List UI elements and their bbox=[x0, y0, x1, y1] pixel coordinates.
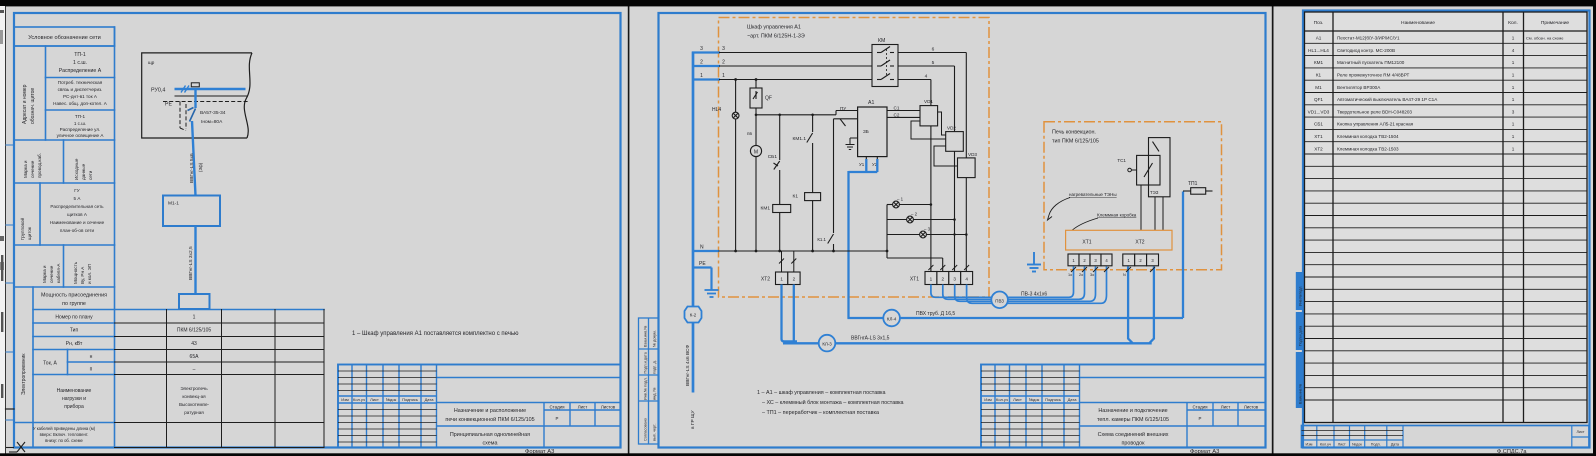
svg-text:схема: схема bbox=[482, 441, 497, 447]
svg-text:1: 1 bbox=[930, 277, 933, 282]
svg-text:Кол.уч: Кол.уч bbox=[1320, 442, 1331, 446]
svg-text:QF: QF bbox=[765, 96, 772, 102]
svg-text:ПКМ 6/125/105: ПКМ 6/125/105 bbox=[177, 328, 212, 334]
svg-text:№ докум.: № докум. bbox=[653, 330, 657, 347]
svg-text:КМ1: КМ1 bbox=[761, 206, 771, 212]
svg-text:1: 1 bbox=[1512, 60, 1515, 65]
svg-text:– 3: – 3 bbox=[924, 227, 931, 232]
svg-text:Назначение и расположение: Назначение и расположение bbox=[454, 408, 526, 414]
svg-text:ПВЗ: ПВЗ bbox=[995, 298, 1004, 303]
svg-text:Инв.№ подл.: Инв.№ подл. bbox=[644, 377, 648, 400]
svg-text:Изм: Изм bbox=[984, 397, 992, 402]
svg-text:У кабелей приведены длина (м): У кабелей приведены длина (м) bbox=[33, 426, 96, 431]
svg-text:М1: М1 bbox=[1315, 85, 1322, 90]
sheet3 bottom stamp bbox=[1302, 426, 1590, 448]
thermostat ТС1 pin bbox=[1128, 168, 1137, 172]
svg-text:PE: PE bbox=[699, 261, 706, 267]
sheet2 title block bbox=[981, 365, 1266, 448]
svg-text:Поз.: Поз. bbox=[1314, 20, 1324, 26]
thermocouple ТП1 bbox=[1183, 188, 1213, 195]
svg-text:Лист: Лист bbox=[578, 405, 588, 410]
svg-text:кабеля-А: кабеля-А bbox=[56, 263, 61, 283]
breaker QF bbox=[750, 80, 762, 146]
svg-text:ТП-1: ТП-1 bbox=[75, 114, 86, 119]
sheet2 drawing frame bbox=[659, 13, 1266, 448]
svg-text:А1: А1 bbox=[868, 100, 874, 106]
svg-text:ХТ2: ХТ2 bbox=[1314, 146, 1323, 151]
sheet edge line 1-2 bbox=[628, 6, 630, 454]
svg-text:сечение: сечение bbox=[49, 265, 54, 283]
terminal strip XT2 cabinet bbox=[776, 272, 801, 285]
svg-text:ХТ2: ХТ2 bbox=[1135, 240, 1144, 246]
KM output lines 6 5 4 bbox=[898, 53, 966, 158]
sheet2 title header labels bbox=[984, 397, 1077, 402]
blue cable XT2 to oven bbox=[782, 267, 1154, 344]
sheet1 left table row texts bbox=[59, 52, 102, 74]
svg-text:ТС1: ТС1 bbox=[1117, 158, 1126, 163]
sheet1 plan fragment wall bbox=[142, 53, 252, 138]
svg-text:Р: Р bbox=[556, 416, 559, 421]
svg-text:уличное освещение А: уличное освещение А bbox=[57, 133, 105, 138]
lamp HL4 branch bbox=[732, 80, 739, 252]
cable marker КЛ-4 bbox=[883, 310, 900, 327]
ground PE symbol blue bbox=[705, 290, 719, 297]
svg-text:3: 3 bbox=[1512, 109, 1515, 114]
svg-text:ХТ1: ХТ1 bbox=[910, 277, 919, 283]
svg-text:КМ: КМ bbox=[878, 38, 885, 44]
svg-text:ВВГнг-LS 3х2,5: ВВГнг-LS 3х2,5 bbox=[188, 246, 194, 280]
svg-text:Р: Р bbox=[1199, 416, 1202, 421]
svg-text:Листов: Листов bbox=[1244, 405, 1259, 410]
svg-text:HL1...HL4: HL1...HL4 bbox=[1308, 48, 1329, 53]
orange oven box bbox=[1044, 122, 1222, 270]
svg-text:У1: У1 bbox=[859, 162, 865, 167]
svg-text:Инв.№подл.: Инв.№подл. bbox=[1299, 286, 1303, 306]
sheet2 notes bbox=[757, 390, 904, 416]
svg-text:конвекц-ая: конвекц-ая bbox=[182, 394, 206, 399]
contactor KM bbox=[872, 45, 898, 87]
svg-text:Дата: Дата bbox=[1391, 442, 1400, 446]
svg-text:Кол.уч: Кол.уч bbox=[353, 397, 365, 402]
svg-text:РУ0,4: РУ0,4 bbox=[151, 88, 165, 94]
svg-text:Вентилятор ВР300А: Вентилятор ВР300А bbox=[1337, 85, 1381, 90]
sheet1 margin black tick bbox=[6, 408, 15, 410]
svg-text:Клеммная коробка: Клеммная коробка bbox=[1097, 213, 1137, 218]
svg-text:вверх: Включ. тепловент.: вверх: Включ. тепловент. bbox=[40, 432, 89, 437]
svg-text:М1-1: М1-1 bbox=[168, 201, 179, 207]
svg-text:2о: 2о bbox=[1079, 273, 1083, 277]
svg-text:КМ1.1: КМ1.1 bbox=[793, 136, 807, 142]
svg-text:КМ1: КМ1 bbox=[1314, 60, 1324, 65]
svg-text:VD2: VD2 bbox=[947, 126, 956, 131]
svg-text:КЛ-4: КЛ-4 bbox=[887, 317, 897, 322]
svg-text:N: N bbox=[1123, 273, 1126, 277]
coil К1 bbox=[805, 193, 821, 251]
svg-text:Мощность: Мощность bbox=[73, 261, 78, 284]
svg-text:Автоматический выключатель ВА4: Автоматический выключатель ВА47-29 1Р С1… bbox=[1337, 96, 1438, 102]
svg-text:Клеммная колодка ТВ2-1504: Клеммная колодка ТВ2-1504 bbox=[1337, 134, 1399, 139]
svg-text:С1: С1 bbox=[894, 106, 900, 111]
svg-text:4: 4 bbox=[965, 277, 968, 282]
svg-text:ТП1: ТП1 bbox=[1188, 181, 1198, 187]
svg-text:Дата: Дата bbox=[425, 397, 435, 402]
svg-text:Назначение и подключение: Назначение и подключение bbox=[1098, 408, 1167, 414]
svg-text:Реле промежуточное RM 4/48ВРТ: Реле промежуточное RM 4/48ВРТ bbox=[1337, 73, 1410, 78]
oven terminal hooks bbox=[1071, 267, 1155, 272]
svg-text:ВВГнг-LS 5х6: ВВГнг-LS 5х6 bbox=[189, 153, 195, 183]
svg-text:Групповой: Групповой bbox=[19, 217, 25, 240]
svg-text:Электроприемник: Электроприемник bbox=[21, 353, 27, 395]
svg-text:вып. черт.: вып. черт. bbox=[653, 424, 657, 441]
svg-text:Стадия: Стадия bbox=[1193, 405, 1209, 410]
svg-text:проводок: проводок bbox=[1121, 441, 1145, 447]
left app strip bbox=[0, 0, 5, 456]
top black band bbox=[0, 0, 1596, 6]
svg-text:Принципиальная однолинейная: Принципиальная однолинейная bbox=[450, 431, 530, 438]
svg-text:н: н bbox=[90, 354, 93, 360]
svg-text:Навес. общ. доп-котел. А: Навес. общ. доп-котел. А bbox=[53, 101, 108, 106]
svg-text:щр: щр bbox=[148, 60, 155, 65]
svg-text:сечение: сечение bbox=[30, 160, 35, 178]
svg-text:КЛ-3: КЛ-3 bbox=[822, 342, 832, 347]
control wire to A1 ПУ bbox=[756, 111, 858, 115]
A1 thermocouple pins У1 У2 bbox=[866, 157, 877, 160]
svg-text:Высокотемпе-: Высокотемпе- bbox=[179, 402, 210, 407]
svg-text:Лист: Лист bbox=[1013, 397, 1022, 402]
svg-text:PE: PE bbox=[165, 102, 172, 108]
A1 outputs С1 С2 bbox=[887, 111, 920, 118]
svg-text:Наименование: Наименование bbox=[1401, 20, 1435, 26]
svg-text:Ток, А: Ток, А bbox=[43, 361, 57, 367]
svg-text:Изм: Изм bbox=[1306, 442, 1313, 446]
svg-text:ЗБ: ЗБ bbox=[863, 129, 869, 134]
svg-text:1 – А1 – шкаф управления – ком: 1 – А1 – шкаф управления – комплектная п… bbox=[757, 390, 886, 396]
svg-text:Лист: Лист bbox=[1338, 442, 1346, 446]
svg-text:1: 1 bbox=[1512, 73, 1515, 78]
svg-text:1: 1 bbox=[1512, 146, 1515, 151]
svg-text:нагревательные ТЭНы: нагревательные ТЭНы bbox=[1069, 192, 1117, 197]
sheet1 power header bbox=[41, 293, 107, 308]
spec table area bbox=[1305, 12, 1588, 423]
svg-text:N: N bbox=[700, 245, 704, 251]
button СБ1 branch bbox=[774, 115, 780, 205]
sheet2 title block thin rows bbox=[981, 371, 1080, 442]
neutral bus N bbox=[719, 250, 888, 252]
svg-text:ратурная: ратурная bbox=[184, 410, 204, 415]
box ЩУ1 bbox=[163, 196, 220, 227]
svg-text:Марка и: Марка и bbox=[42, 265, 47, 283]
svg-text:Ф.СПДС.7а: Ф.СПДС.7а bbox=[1497, 449, 1527, 455]
breaker QF symbol bbox=[188, 108, 196, 122]
svg-text:QF1: QF1 bbox=[1314, 97, 1323, 102]
hooks above cabinet XT1 bbox=[928, 265, 969, 270]
svg-text:Распределительная сеть: Распределительная сеть bbox=[50, 204, 104, 209]
svg-text:щиток: щиток bbox=[27, 226, 32, 240]
svg-text:данные: данные bbox=[81, 163, 86, 180]
svg-text:1: 1 bbox=[722, 73, 725, 79]
svg-text:1 – Шкаф управления А1 поставл: 1 – Шкаф управления А1 поставляется комп… bbox=[352, 331, 519, 337]
svg-text:связь и диспетчериз.: связь и диспетчериз. bbox=[58, 87, 103, 92]
junction dots on L1 bbox=[734, 78, 757, 81]
svg-text:Формат А3: Формат А3 bbox=[1190, 449, 1219, 455]
oven terminal box orange bbox=[1066, 230, 1172, 250]
svg-text:Мощность присоединения: Мощность присоединения bbox=[41, 293, 107, 299]
node РУ0,4 busbar bbox=[175, 88, 246, 91]
sheet1 left table header text bbox=[28, 35, 101, 41]
svg-text:Формат А3: Формат А3 bbox=[525, 449, 554, 455]
svg-text:Наименование и сечение: Наименование и сечение bbox=[50, 220, 105, 225]
cable marker КЛ-3 bbox=[819, 335, 836, 352]
cable marker K-2 bbox=[685, 307, 702, 323]
svg-text:ПУ: ПУ bbox=[840, 106, 846, 111]
svg-text:Распределение А: Распределение А bbox=[59, 68, 102, 74]
svg-text:3: 3 bbox=[722, 46, 725, 52]
svg-text:1: 1 bbox=[1512, 134, 1515, 139]
svg-text:1о: 1о bbox=[1068, 273, 1072, 277]
svg-text:сети: сети bbox=[88, 170, 93, 180]
svg-text:Шкаф управления А1: Шкаф управления А1 bbox=[747, 25, 801, 31]
svg-text:3: 3 bbox=[700, 46, 703, 52]
spec table row lines bbox=[1305, 43, 1588, 400]
svg-text:Клеммная колодка ТВ2-1503: Клеммная колодка ТВ2-1503 bbox=[1337, 146, 1399, 151]
svg-text:Печь конвекцион.: Печь конвекцион. bbox=[1052, 130, 1096, 136]
svg-text:– 1: – 1 bbox=[897, 197, 904, 202]
svg-text:2: 2 bbox=[700, 60, 703, 66]
thermocouple blue cable from A1 bbox=[847, 159, 1183, 318]
svg-text:Подпись: Подпись bbox=[402, 397, 418, 402]
heater wires to box bbox=[1141, 185, 1163, 230]
svg-text:пв: пв bbox=[747, 131, 752, 136]
svg-text:–: – bbox=[193, 367, 196, 373]
svg-text:ПВХ труб. Д 16,5: ПВХ труб. Д 16,5 bbox=[916, 311, 955, 317]
sheet edge line 2-3 bbox=[1272, 6, 1274, 454]
A1 ground bbox=[846, 138, 858, 150]
fan motor M1 bbox=[750, 145, 761, 251]
spec table rows text bbox=[1308, 36, 1565, 152]
white strip vertical marks bbox=[1, 255, 3, 398]
svg-text:в ГР ЩУ: в ГР ЩУ bbox=[690, 409, 696, 429]
wire cable down from РУ bbox=[192, 89, 196, 196]
svg-text:инд. №: инд. № bbox=[653, 387, 657, 400]
svg-text:5 А: 5 А bbox=[74, 196, 82, 201]
svg-text:2: 2 bbox=[722, 60, 725, 66]
svg-text:См. обозн. на схеме: См. обозн. на схеме bbox=[1526, 36, 1564, 41]
svg-text:6: 6 bbox=[932, 47, 935, 53]
svg-text:ХТ1: ХТ1 bbox=[1314, 134, 1323, 139]
sheet1 left margin ticks bbox=[6, 145, 14, 420]
svg-text:Адресат и номер: Адресат и номер bbox=[22, 84, 28, 124]
svg-text:щитков А: щитков А bbox=[67, 212, 88, 217]
svg-text:п: п bbox=[90, 367, 93, 373]
svg-text:ТП-1: ТП-1 bbox=[74, 52, 86, 58]
svg-text:4: 4 bbox=[1512, 48, 1515, 53]
svg-text:VD3: VD3 bbox=[968, 152, 977, 157]
svg-text:Магнитный пускатель ПМ12100: Магнитный пускатель ПМ12100 bbox=[1337, 59, 1405, 65]
spec table header bbox=[1314, 20, 1570, 26]
svg-text:Ву, Рн А: Ву, Рн А bbox=[80, 266, 85, 284]
svg-text:Потреб. техническая: Потреб. техническая bbox=[58, 80, 103, 85]
svg-text:обознач. щитов: обознач. щитов bbox=[30, 88, 36, 124]
svg-text:Светодиод контр. МС-200В: Светодиод контр. МС-200В bbox=[1337, 48, 1395, 53]
svg-text:1: 1 bbox=[1512, 122, 1515, 127]
terminal XT2 cabinet taps bbox=[779, 251, 796, 272]
svg-text:Лист: Лист bbox=[370, 397, 379, 402]
svg-text:ВВГнг-LS 4х6 ВСФ: ВВГнг-LS 4х6 ВСФ bbox=[685, 345, 691, 386]
svg-text:3: 3 bbox=[953, 277, 956, 282]
sheet1 left table grid bbox=[14, 27, 324, 448]
svg-text:печи конвекционной ПКМ 6/125/1: печи конвекционной ПКМ 6/125/105 bbox=[445, 416, 534, 423]
svg-text:Наименование: Наименование bbox=[57, 388, 92, 394]
sheet2 margin stamp boxes bbox=[639, 318, 659, 444]
bottom-left cursor artifact bbox=[6, 442, 25, 452]
svg-text:Изм: Изм bbox=[341, 397, 349, 402]
svg-text:Взам.инв.№: Взам.инв.№ bbox=[644, 326, 648, 347]
svg-text:2: 2 bbox=[942, 277, 945, 282]
svg-text:К-2: К-2 bbox=[690, 313, 697, 318]
right black band bbox=[1593, 0, 1596, 456]
svg-text:ВА57-35-34: ВА57-35-34 bbox=[200, 110, 226, 116]
title block main text bbox=[445, 408, 534, 447]
svg-text:тип ПКМ 6/125/105: тип ПКМ 6/125/105 bbox=[1052, 139, 1099, 145]
indicator lamps HL1-HL3 bbox=[887, 201, 966, 238]
svg-text:~арт. ПКМ 6/125Н-1-3Э: ~арт. ПКМ 6/125Н-1-3Э bbox=[747, 34, 805, 40]
svg-text:Твердотельное реле BDH-C048203: Твердотельное реле BDH-C048203 bbox=[1337, 109, 1412, 114]
svg-text:Подп.и дата: Подп.и дата bbox=[1299, 326, 1303, 346]
svg-text:Согласовано: Согласовано bbox=[644, 418, 648, 441]
controller A1 bbox=[858, 107, 887, 157]
svg-text:провод.каб.: провод.каб. bbox=[37, 153, 42, 178]
svg-text:1: 1 bbox=[1512, 36, 1515, 41]
svg-text:К1.1: К1.1 bbox=[817, 237, 826, 242]
blue bundle XT1 to oven bbox=[931, 267, 1107, 304]
sheet1 data table values bbox=[177, 315, 212, 373]
box receiver bbox=[179, 294, 210, 309]
svg-text:по группе: по группе bbox=[62, 301, 86, 307]
svg-text:Подп.: Подп. bbox=[1371, 442, 1381, 446]
node PE dashed bus bbox=[163, 102, 250, 131]
contact К1.1 branch bbox=[828, 119, 858, 244]
svg-text:Условное обозначение сети: Условное обозначение сети bbox=[28, 35, 101, 41]
sheet1 data table row labels bbox=[43, 315, 93, 411]
svg-text:подп. д.: подп. д. bbox=[653, 360, 657, 374]
svg-text:Марка и: Марка и bbox=[23, 160, 28, 178]
svg-text:Распределение ул.: Распределение ул. bbox=[60, 127, 101, 132]
node N thin line bbox=[175, 95, 248, 97]
bottom black band bbox=[0, 453, 1596, 456]
svg-text:Стадия: Стадия bbox=[550, 405, 566, 410]
svg-text:2: 2 bbox=[793, 277, 796, 282]
sheet3 drawing frame bbox=[1303, 11, 1590, 448]
orange cabinet box А1 bbox=[719, 18, 990, 298]
oven heater block ТЭН bbox=[1137, 138, 1170, 197]
svg-text:– ТП1 – переработчик – комплек: – ТП1 – переработчик – комплектная поста… bbox=[762, 410, 879, 416]
svg-text:HL4: HL4 bbox=[712, 107, 721, 113]
oven ground blue bbox=[1027, 252, 1041, 272]
svg-text:Кнопка управления АЛ5-21 красн: Кнопка управления АЛ5-21 красная bbox=[1337, 122, 1414, 127]
svg-text:Лист: Лист bbox=[1576, 430, 1584, 434]
svg-text:Исходные: Исходные bbox=[74, 158, 79, 180]
svg-text:Примечание: Примечание bbox=[1541, 20, 1570, 26]
svg-text:Iном=80А: Iном=80А bbox=[201, 119, 223, 125]
svg-text:и кол. ЭП: и кол. ЭП bbox=[87, 264, 92, 284]
svg-text:СБ1: СБ1 bbox=[1314, 122, 1323, 127]
branch slashes on busbar bbox=[181, 86, 189, 93]
oven terminal cells XT2 bbox=[1123, 254, 1159, 266]
oven terminal cells XT1 bbox=[1068, 254, 1112, 266]
lamp common rail bbox=[887, 205, 943, 272]
svg-text:нагрузки и: нагрузки и bbox=[62, 396, 86, 402]
svg-text:Кол.: Кол. bbox=[1508, 20, 1518, 26]
spec table outline bbox=[1305, 12, 1588, 423]
svg-text:Пеостат-М12(б/У-3/ИР/ИС/У1: Пеостат-М12(б/У-3/ИР/ИС/У1 bbox=[1337, 36, 1400, 41]
svg-text:– 2: – 2 bbox=[911, 212, 918, 217]
relays VD1 VD2 VD3 bbox=[920, 106, 975, 178]
svg-text:М: М bbox=[754, 150, 758, 156]
svg-text:С2: С2 bbox=[894, 113, 900, 118]
VD control chain wires bbox=[911, 112, 958, 166]
svg-text:прибора: прибора bbox=[64, 404, 84, 410]
title block thin rows bbox=[338, 371, 437, 442]
contact КМ1.1 branch bbox=[807, 115, 813, 193]
svg-text:ХТ1: ХТ1 bbox=[1082, 240, 1091, 246]
svg-text:ВВГнгА-LS 3х1,5: ВВГнгА-LS 3х1,5 bbox=[851, 336, 890, 342]
svg-text:СБ1: СБ1 bbox=[768, 154, 778, 160]
svg-text:ПВ-3 4х1х6: ПВ-3 4х1х6 bbox=[1021, 292, 1047, 298]
svg-text:К1: К1 bbox=[1316, 73, 1322, 78]
wire cable to oven bbox=[194, 226, 196, 294]
svg-text:5: 5 bbox=[932, 60, 935, 66]
svg-text:Подпись: Подпись bbox=[1045, 397, 1061, 402]
svg-text:№док: №док bbox=[386, 397, 397, 402]
svg-text:Подп.и дата: Подп.и дата bbox=[644, 351, 648, 373]
svg-text:4: 4 bbox=[925, 74, 928, 80]
svg-text:РС-днт-в1 ток А: РС-днт-в1 ток А bbox=[63, 94, 98, 99]
svg-text:65А: 65А bbox=[190, 354, 200, 360]
svg-text:А1: А1 bbox=[1316, 36, 1322, 41]
sheet3 margin stamp boxes bbox=[1296, 272, 1303, 408]
terminal strip XT1 cabinet bbox=[925, 272, 973, 285]
svg-text:1: 1 bbox=[1512, 97, 1515, 102]
coil КМ1 bbox=[773, 205, 791, 252]
sheet1 data table black grid bbox=[115, 310, 325, 448]
svg-text:1: 1 bbox=[193, 315, 196, 321]
svg-text:№док: №док bbox=[1352, 442, 1362, 446]
svg-text:Тип: Тип bbox=[70, 328, 79, 334]
svg-text:1 с.ш.: 1 с.ш. bbox=[73, 60, 87, 66]
svg-text:ТЭЗ: ТЭЗ bbox=[1150, 190, 1159, 195]
svg-text:тепл. камеры ПКМ 6/125/105: тепл. камеры ПКМ 6/125/105 bbox=[1097, 417, 1169, 423]
sheet1 title block bbox=[338, 365, 621, 448]
phase bus lines black bbox=[719, 53, 872, 80]
svg-text:Взам.инв.№: Взам.инв.№ bbox=[1299, 384, 1303, 404]
svg-text:1: 1 bbox=[1512, 85, 1515, 90]
svg-text:Кол.уч: Кол.уч bbox=[996, 397, 1008, 402]
feeder blue riser bbox=[692, 52, 695, 393]
svg-text:1: 1 bbox=[700, 73, 703, 79]
svg-text:№док: №док bbox=[1029, 397, 1040, 402]
svg-text:VD1...VD3: VD1...VD3 bbox=[1308, 109, 1330, 114]
svg-text:– ХС – клеммный блок монтажа –: – ХС – клеммный блок монтажа – комплектн… bbox=[762, 399, 904, 406]
sheet1 drawing frame bbox=[14, 13, 621, 448]
connector tap box bbox=[191, 83, 199, 87]
svg-text:Электропечь: Электропечь bbox=[180, 386, 208, 391]
svg-text:К1: К1 bbox=[793, 194, 799, 200]
title block header labels bbox=[341, 397, 434, 402]
sheet2 title main text bbox=[1097, 408, 1169, 447]
svg-text:ГУ: ГУ bbox=[74, 188, 79, 193]
VD output drops bbox=[931, 126, 966, 272]
svg-text:(Зф): (Зф) bbox=[198, 162, 203, 172]
